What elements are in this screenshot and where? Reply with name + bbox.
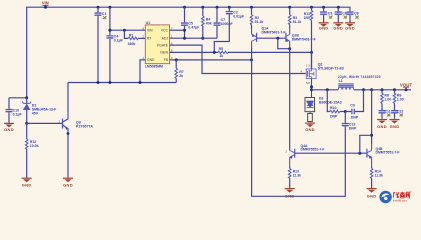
node: R1 branch: [123, 29, 126, 32]
svg-text:1.00: 1.00: [384, 97, 391, 101]
wire: VOUT bus: [354, 89, 411, 91]
resistor R11 sense: [304, 6, 313, 69]
node: VIN port junction: [44, 6, 47, 9]
svg-text:GND: GND: [22, 182, 32, 187]
svg-text:2k: 2k: [179, 74, 183, 78]
svg-text:RT: RT: [147, 37, 151, 41]
svg-text:GND: GND: [147, 58, 155, 62]
node: D2 anode: [25, 122, 28, 125]
svg-text:DNP: DNP: [351, 116, 359, 120]
wire: FB line: [170, 59, 252, 61]
svg-text:40k: 40k: [206, 21, 212, 25]
svg-text:10.0k: 10.0k: [30, 144, 39, 148]
VOUT power port: [400, 82, 413, 90]
svg-text:340k: 340k: [128, 42, 136, 46]
resistor R3 51.1k: [288, 6, 301, 29]
svg-text:0.1µF: 0.1µF: [114, 39, 124, 43]
svg-text:GND: GND: [285, 194, 295, 199]
resistor R1 340k: [124, 30, 145, 46]
svg-text:2: 2: [286, 149, 288, 153]
svg-text:VIN: VIN: [42, 1, 49, 6]
resistor R14 11.3k: [370, 167, 383, 189]
resistor R2 51.1k: [250, 6, 263, 29]
resistor R13 11.3k: [288, 167, 301, 189]
svg-text:GND: GND: [63, 182, 73, 187]
resistor R4 40k: [201, 6, 211, 39]
wire: top VIN bus: [27, 7, 350, 98]
svg-text:R5: R5: [219, 47, 224, 51]
capacitor C3: [320, 6, 332, 23]
inductor L1: [338, 75, 381, 90]
svg-text:L1: L1: [339, 79, 343, 83]
svg-text:GND: GND: [333, 26, 343, 31]
resistor R8 1.00: [381, 90, 392, 110]
svg-text:0.01µF: 0.01µF: [233, 14, 245, 18]
ground: under D3: [305, 123, 315, 132]
svg-text:C11: C11: [385, 110, 391, 114]
capacitor C11 47uF: [378, 110, 390, 119]
transistor Q4B DMMT5551: [367, 145, 400, 167]
svg-text:1R0: 1R0: [304, 16, 310, 20]
wire: Q3 emitter to gnd: [67, 133, 69, 178]
svg-text:11.3k: 11.3k: [375, 173, 383, 177]
diode D2 zener SMBJ45A: [22, 98, 57, 124]
wire: Q1B collector to Q4A collector: [289, 49, 291, 150]
wire: Q4B diode tie: [360, 135, 372, 153]
ground: under C11: [377, 119, 387, 129]
svg-text:C6: C6: [342, 12, 347, 16]
svg-text:STL36DP-T1-E3: STL36DP-T1-E3: [318, 67, 344, 71]
VIN power port: [42, 1, 49, 8]
wire: PGATE to Q2 gate: [170, 45, 306, 73]
ground: under Q3: [63, 178, 73, 188]
svg-text:GND: GND: [390, 124, 400, 129]
wire: VIN pin wire: [110, 29, 145, 31]
wire: Q2 drain to SW: [311, 79, 313, 98]
ground: under C6: [333, 22, 343, 30]
wire: Q1 base tie: [257, 37, 286, 39]
diode D3 B360DE-15A3: [305, 96, 342, 122]
wire: VIN left drop to D2 node: [9, 97, 27, 99]
capacitor C12 47uF: [391, 110, 404, 119]
svg-text:VOUT: VOUT: [400, 82, 413, 87]
transistor Q3 PZT657TA: [27, 112, 94, 133]
transistor Q4A DMMT5551: [286, 144, 325, 167]
svg-text:GND: GND: [305, 127, 315, 132]
svg-text:0.47µF: 0.47µF: [188, 26, 200, 30]
capacitor C8: [346, 11, 358, 22]
capacitor C10: [5, 98, 22, 123]
svg-text:1.00: 1.00: [397, 97, 404, 101]
transistor Q1B DMMT5401: [286, 29, 316, 49]
svg-text:R1: R1: [129, 33, 134, 37]
capacitor C9 DNP (snubber): [345, 90, 363, 120]
svg-text:DNP: DNP: [349, 126, 357, 130]
svg-text:5-8: 5-8: [306, 81, 310, 85]
svg-text:GND: GND: [4, 127, 14, 132]
ground: under R14: [367, 188, 377, 199]
svg-text:51.1k: 51.1k: [293, 20, 302, 24]
ground: under C10: [4, 123, 14, 132]
ground: under R13: [285, 188, 295, 199]
wire: FB ripple loop: [252, 48, 346, 197]
op-amp U1 LM5085 controller: [143, 21, 174, 68]
svg-text:45V: 45V: [32, 111, 39, 115]
capacitor C7 1000pF: [213, 6, 233, 39]
svg-text:R10: R10: [330, 106, 336, 110]
wire: VCC pin wire: [170, 29, 185, 31]
wire: base to Q1B collector: [278, 38, 290, 49]
svg-text:DMMT5551-7-F: DMMT5551-7-F: [301, 148, 325, 152]
ground: under C8: [345, 22, 355, 30]
wire: Q4B collector to VOUT: [371, 90, 373, 145]
svg-text:C9: C9: [350, 103, 355, 107]
wire: Q2 source stub: [311, 52, 313, 68]
resistor R10 DNP (snubber): [327, 90, 345, 119]
transistor Q2 PFET: [306, 62, 344, 85]
svg-text:VIN: VIN: [147, 29, 153, 33]
wire: SW node to inductor: [312, 89, 339, 91]
svg-text:U1: U1: [146, 21, 151, 25]
capacitor C2 0.01uF: [214, 6, 245, 53]
svg-text:11.3k: 11.3k: [293, 173, 301, 177]
svg-text:1000pF: 1000pF: [221, 22, 234, 26]
watermark logo: [379, 190, 411, 203]
svg-text:1k: 1k: [219, 54, 223, 58]
svg-text:22µH, Würth 7443857320: 22µH, Würth 7443857320: [338, 75, 381, 79]
svg-text:ISEN: ISEN: [160, 51, 168, 55]
svg-text:PZT657TA: PZT657TA: [76, 124, 93, 128]
svg-text:C8: C8: [354, 12, 359, 16]
svg-text:instr88.com: instr88.com: [393, 198, 408, 202]
resistor R9 1.00: [393, 90, 404, 110]
wire: bus to Q3 collector: [67, 83, 69, 113]
wire: ISEN line: [170, 51, 218, 53]
svg-text:GND: GND: [319, 26, 329, 31]
wire: floating gnd bus: [68, 82, 176, 84]
transistor Q1A DMMT5401: [252, 26, 286, 47]
svg-text:DMMT5551-7-F: DMMT5551-7-F: [376, 151, 400, 155]
ground: under R12: [22, 178, 32, 188]
svg-text:LM5085MM: LM5085MM: [145, 64, 163, 68]
svg-text:VCC: VCC: [161, 29, 169, 33]
ground: under C12: [390, 119, 400, 129]
resistor R7 2k (FB to gnd bus): [175, 60, 184, 83]
svg-text:C1: C1: [102, 12, 107, 16]
svg-text:C3: C3: [328, 12, 333, 16]
svg-text:DMMT5401-7-F: DMMT5401-7-F: [292, 38, 316, 42]
capacitor C4: [106, 6, 123, 83]
capacitor C13 DNP (ripple inject): [342, 112, 357, 131]
svg-text:C12: C12: [397, 110, 403, 114]
svg-text:B360DE-15A3: B360DE-15A3: [319, 100, 342, 104]
svg-text:DNP: DNP: [330, 114, 338, 118]
svg-text:GND: GND: [377, 124, 387, 129]
svg-text:GND: GND: [345, 26, 355, 31]
resistor R12 10.0k: [25, 123, 38, 177]
svg-text:0.1µF: 0.1µF: [13, 112, 23, 116]
resistor R5 1k: [218, 47, 228, 58]
ground: under C3: [319, 22, 329, 30]
svg-text:1-3: 1-3: [306, 64, 310, 68]
wire: Q4 base line: [295, 152, 367, 154]
wire: IC GND pin to floating bus: [140, 60, 145, 83]
svg-text:GND: GND: [367, 194, 377, 199]
svg-text:®: ®: [410, 190, 412, 194]
svg-text:ADJ: ADJ: [162, 37, 169, 41]
wire: ISEN line right: [228, 51, 312, 53]
capacitor C6: [335, 6, 347, 23]
svg-text:51.1k: 51.1k: [255, 20, 264, 24]
capacitor C5 0.47uF: [181, 6, 200, 39]
wire: ADJ bus: [170, 37, 217, 39]
svg-text:DMMT5401-7-F: DMMT5401-7-F: [262, 30, 286, 34]
svg-text:PGATE: PGATE: [157, 43, 169, 47]
capacitor C1: [94, 6, 106, 83]
